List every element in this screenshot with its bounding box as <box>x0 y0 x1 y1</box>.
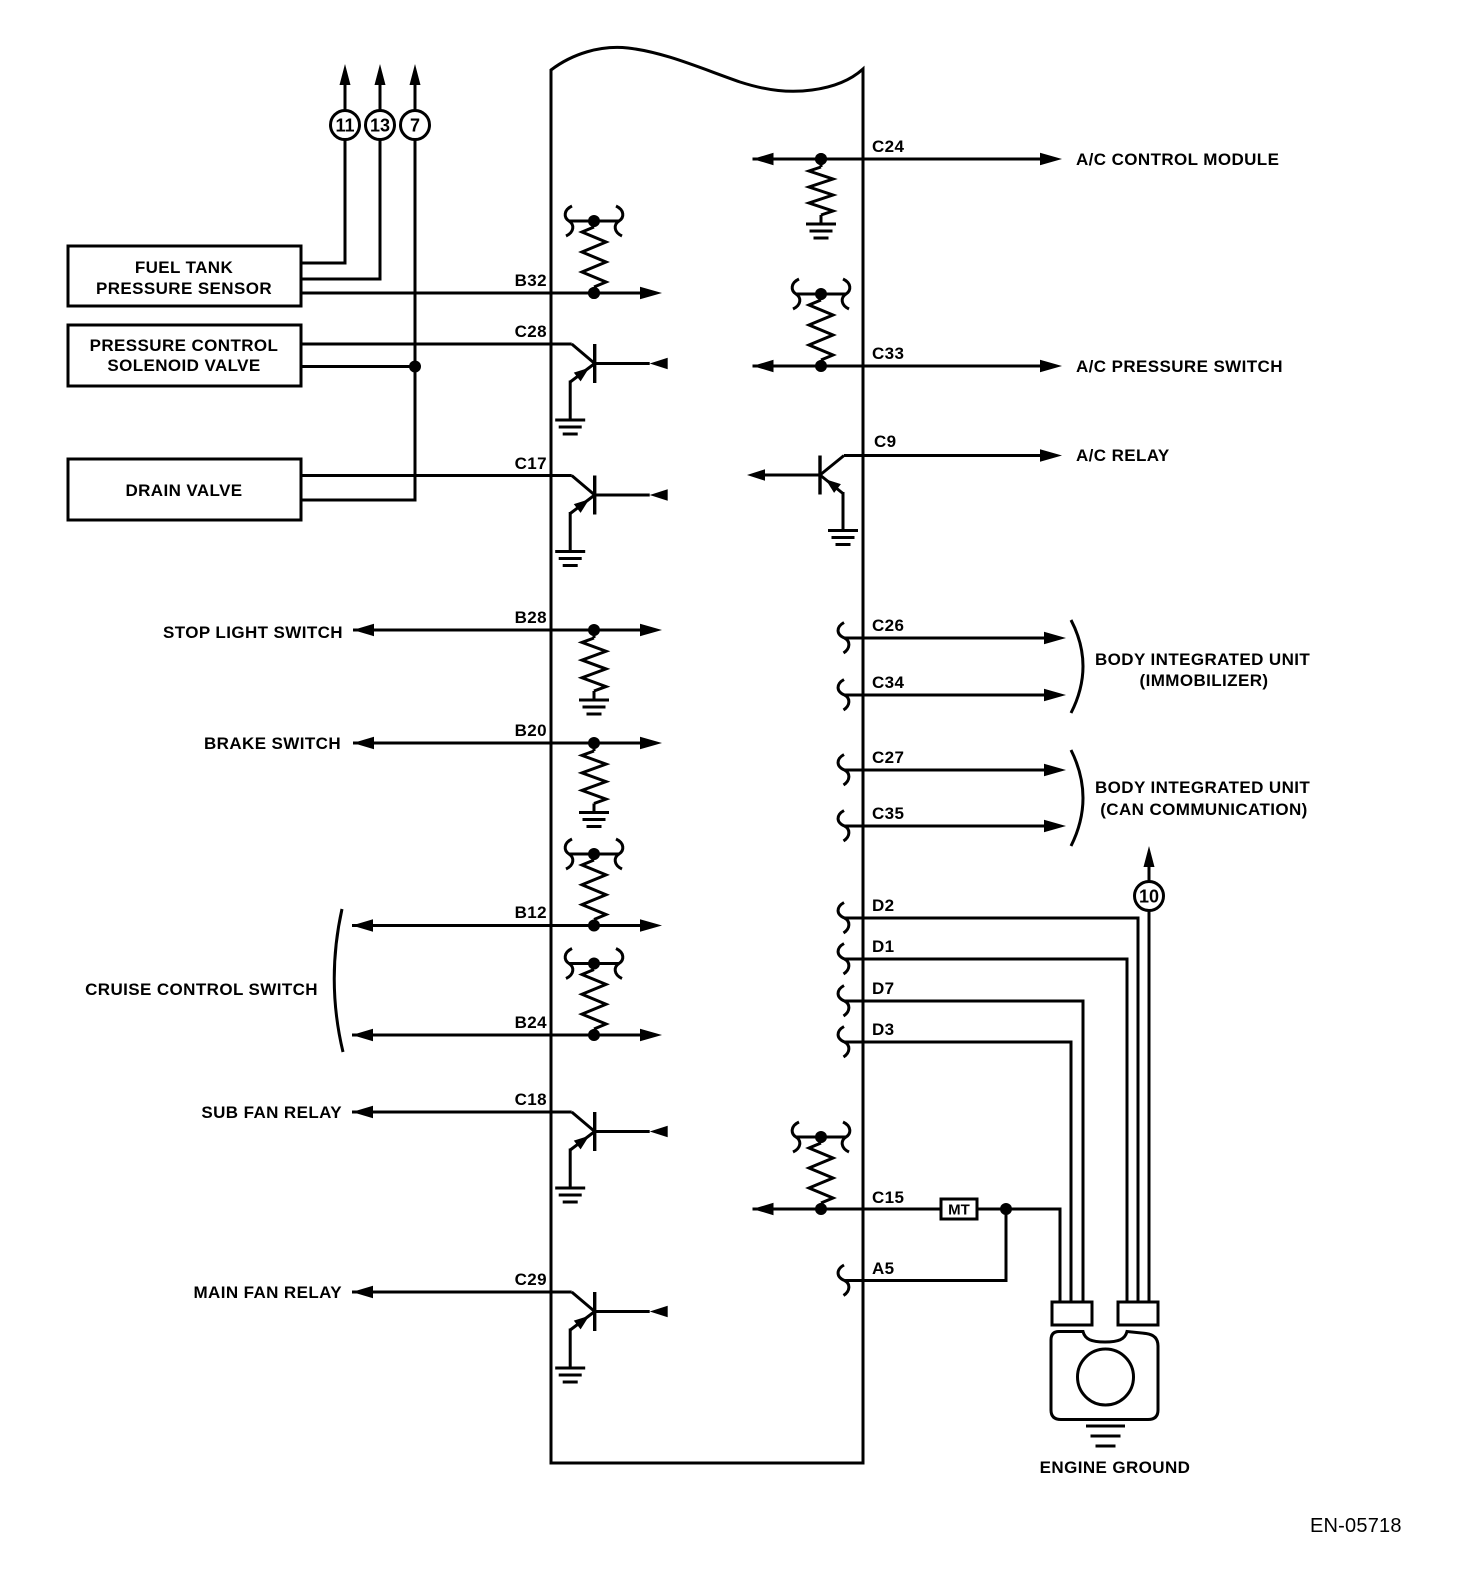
svg-text:STOP LIGHT SWITCH: STOP LIGHT SWITCH <box>163 623 343 642</box>
label A/C RELAY <box>1076 446 1170 465</box>
label BODY INTEGRATED UNIT (CAN COMMUNICATION) <box>1095 778 1310 819</box>
label BRAKE SWITCH <box>204 734 341 753</box>
pin C34 label <box>872 673 905 692</box>
bracket cruise control switch <box>334 909 343 1052</box>
wire C28 line <box>301 343 572 346</box>
resistor pull-up at B24 <box>565 949 623 1042</box>
wire D1 line <box>838 944 1127 1304</box>
svg-text:B20: B20 <box>515 721 547 740</box>
fuel tank pressure sensor box <box>68 246 301 306</box>
label MAIN FAN RELAY <box>193 1283 342 1302</box>
wire C15 line <box>753 1203 942 1215</box>
engine ground terminal body <box>1051 1332 1158 1420</box>
svg-text:SUB FAN RELAY: SUB FAN RELAY <box>201 1103 342 1122</box>
svg-text:SOLENOID VALVE: SOLENOID VALVE <box>107 356 260 375</box>
connector circle 7 with up arrow <box>401 64 430 140</box>
wire C29 line <box>352 1286 572 1298</box>
svg-text:DRAIN VALVE: DRAIN VALVE <box>125 481 242 500</box>
wire C9 line <box>863 449 1062 461</box>
pin C29 label <box>515 1270 547 1289</box>
transistor at C17 with ground <box>555 476 668 566</box>
svg-text:A5: A5 <box>872 1259 895 1278</box>
ECM main box outline (wavy top) <box>551 47 863 1463</box>
svg-text:C9: C9 <box>874 432 897 451</box>
transistor at C9 with ground <box>747 456 863 545</box>
wire D3 line <box>838 1027 1071 1304</box>
resistor to ground at B28 <box>579 624 609 714</box>
transistor at C29 with ground <box>555 1292 668 1382</box>
pin C18 label <box>515 1090 547 1109</box>
svg-text:B12: B12 <box>515 903 547 922</box>
pin C15 label <box>872 1188 904 1207</box>
wire C27 line <box>838 755 1066 786</box>
pin C9 label <box>874 432 897 451</box>
svg-text:C35: C35 <box>872 804 904 823</box>
pin C35 label <box>872 804 904 823</box>
svg-text:C34: C34 <box>872 673 905 692</box>
resistor pull-up at B32 <box>565 206 623 299</box>
svg-text:B32: B32 <box>515 271 547 290</box>
pin C17 label <box>515 454 547 473</box>
pin B20 label <box>515 721 547 740</box>
wire C35 line <box>838 811 1066 842</box>
svg-text:BODY INTEGRATED UNIT: BODY INTEGRATED UNIT <box>1095 650 1310 669</box>
resistor pull-up at C15 <box>792 1122 850 1215</box>
label BODY INTEGRATED UNIT (IMMOBILIZER) <box>1095 650 1310 690</box>
svg-text:D1: D1 <box>872 937 895 956</box>
label ENGINE GROUND <box>1040 1458 1191 1477</box>
pin C27 label <box>872 748 904 767</box>
svg-text:BODY INTEGRATED UNIT: BODY INTEGRATED UNIT <box>1095 778 1310 797</box>
svg-text:7: 7 <box>410 116 420 136</box>
wire fuel tank pressure sensor to connector 13 <box>301 140 380 279</box>
resistor to ground at B20 <box>579 737 609 827</box>
svg-text:C18: C18 <box>515 1090 547 1109</box>
wire connector 10 to ground lug <box>1148 911 1151 1304</box>
pin C26 label <box>872 616 904 635</box>
svg-text:A/C RELAY: A/C RELAY <box>1076 446 1170 465</box>
pin D3 label <box>872 1020 895 1039</box>
svg-text:10: 10 <box>1139 887 1159 907</box>
svg-text:B28: B28 <box>515 608 547 627</box>
svg-text:D7: D7 <box>872 979 895 998</box>
pin B24 label <box>515 1013 548 1032</box>
svg-text:CRUISE CONTROL SWITCH: CRUISE CONTROL SWITCH <box>85 980 318 999</box>
resistor pull-up at C33 <box>792 279 850 372</box>
svg-text:C28: C28 <box>515 322 547 341</box>
drain valve box <box>68 459 301 520</box>
wire B20 line <box>353 737 662 749</box>
svg-text:C24: C24 <box>872 137 905 156</box>
resistor pull-up at B12 <box>565 839 623 932</box>
svg-text:ENGINE GROUND: ENGINE GROUND <box>1040 1458 1191 1477</box>
MT box <box>941 1199 977 1219</box>
engine ground terminal hole <box>1078 1349 1134 1405</box>
engine ground symbol <box>1086 1426 1125 1446</box>
svg-text:C33: C33 <box>872 344 904 363</box>
ground lug right <box>1118 1302 1158 1325</box>
wire B12 line <box>352 919 662 931</box>
label A/C PRESSURE SWITCH <box>1076 357 1283 376</box>
svg-text:C26: C26 <box>872 616 904 635</box>
wire fuel tank pressure sensor to connector 11 <box>301 140 345 263</box>
pin C24 label <box>872 137 905 156</box>
svg-text:13: 13 <box>370 116 390 136</box>
wire C18 line <box>352 1106 572 1118</box>
wire B28 line <box>353 624 662 636</box>
wire B32 line <box>301 287 662 299</box>
svg-text:PRESSURE SENSOR: PRESSURE SENSOR <box>96 279 272 298</box>
wire C26 line <box>838 623 1066 654</box>
svg-text:(CAN COMMUNICATION): (CAN COMMUNICATION) <box>1100 800 1307 819</box>
svg-text:(IMMOBILIZER): (IMMOBILIZER) <box>1140 671 1269 690</box>
wire C24 line <box>753 153 1063 165</box>
svg-text:MAIN FAN RELAY: MAIN FAN RELAY <box>193 1283 342 1302</box>
wire C33 line <box>753 360 1063 372</box>
svg-text:C27: C27 <box>872 748 904 767</box>
svg-text:B24: B24 <box>515 1013 548 1032</box>
svg-text:EN-05718: EN-05718 <box>1310 1515 1402 1537</box>
wire B24 line <box>352 1029 662 1041</box>
svg-text:C29: C29 <box>515 1270 547 1289</box>
label A/C CONTROL MODULE <box>1076 150 1279 169</box>
wire D2 line <box>838 903 1138 1304</box>
label STOP LIGHT SWITCH <box>163 623 343 642</box>
svg-text:D2: D2 <box>872 896 895 915</box>
pin D2 label <box>872 896 895 915</box>
pin B12 label <box>515 903 547 922</box>
resistor to ground at C24 <box>806 153 836 238</box>
wire C34 line <box>838 680 1066 711</box>
svg-text:D3: D3 <box>872 1020 895 1039</box>
wire MT to ground lug <box>977 1203 1060 1303</box>
svg-text:BRAKE SWITCH: BRAKE SWITCH <box>204 734 341 753</box>
label CRUISE CONTROL SWITCH <box>85 980 318 999</box>
svg-text:11: 11 <box>335 116 354 136</box>
pin C33 label <box>872 344 904 363</box>
ground lug left <box>1052 1302 1092 1325</box>
svg-text:FUEL TANK: FUEL TANK <box>135 258 234 277</box>
wire pressure control solenoid valve to node on 7-wire <box>301 361 421 373</box>
wire A5 line <box>838 1209 1006 1296</box>
pin B32 label <box>515 271 547 290</box>
bracket body integrated unit immobilizer <box>1071 620 1083 713</box>
bracket body integrated unit can <box>1071 750 1083 846</box>
pin A5 label <box>872 1259 895 1278</box>
wire D7 line <box>838 986 1083 1304</box>
svg-text:MT: MT <box>948 1202 970 1219</box>
pin B28 label <box>515 608 547 627</box>
wire connector 7 vertical <box>301 140 415 500</box>
figure number EN-05718 <box>1310 1515 1402 1537</box>
svg-text:PRESSURE CONTROL: PRESSURE CONTROL <box>90 336 279 355</box>
label SUB FAN RELAY <box>201 1103 342 1122</box>
pin C28 label <box>515 322 547 341</box>
connector circle 13 with up arrow <box>366 64 395 140</box>
svg-text:C17: C17 <box>515 454 547 473</box>
connector circle 11 with up arrow <box>331 64 360 140</box>
pin D1 label <box>872 937 895 956</box>
pressure control solenoid valve box <box>68 325 301 386</box>
transistor at C28 with ground <box>555 344 668 434</box>
wire C17 line <box>301 474 572 477</box>
transistor at C18 with ground <box>555 1112 668 1202</box>
svg-text:A/C CONTROL MODULE: A/C CONTROL MODULE <box>1076 150 1279 169</box>
svg-text:C15: C15 <box>872 1188 904 1207</box>
svg-text:A/C PRESSURE SWITCH: A/C PRESSURE SWITCH <box>1076 357 1283 376</box>
pin D7 label <box>872 979 895 998</box>
connector circle 10 with up arrow <box>1135 846 1164 911</box>
